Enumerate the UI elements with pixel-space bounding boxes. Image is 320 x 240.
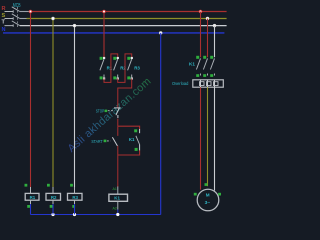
- MCB linkage dashed: [17, 7, 19, 27]
- wire main through start: [117, 126, 119, 187]
- node on R bus x104: [102, 10, 106, 14]
- wire R3 to stop: [118, 79, 132, 108]
- wire into coil: [117, 187, 119, 195]
- wire red drop to lamp R1: [30, 12, 32, 188]
- svg-text:T: T: [2, 20, 6, 26]
- svg-text:3~: 3~: [205, 200, 211, 206]
- stop button actuator: [105, 110, 114, 113]
- svg-text:N: N: [2, 27, 6, 33]
- svg-text:K1: K1: [114, 196, 120, 201]
- node on S bus x53: [51, 17, 54, 20]
- contact R3: [127, 57, 133, 80]
- svg-text:R3: R3: [72, 195, 78, 200]
- wire red drop K1 pole2: [207, 19, 209, 58]
- wire red drop K1 pole1: [200, 12, 202, 58]
- wire series link R1-R2: [104, 54, 118, 83]
- wire white overload to motor W: [214, 87, 216, 190]
- svg-text:M: M: [206, 193, 210, 198]
- svg-text:R1: R1: [107, 66, 113, 71]
- contactor K1 pole2: [203, 56, 207, 77]
- wire white drop to lamp R3: [74, 26, 76, 188]
- svg-text:S: S: [2, 13, 6, 19]
- node on T bus x74.5: [73, 24, 76, 27]
- bus N (blue neutral): [3, 32, 224, 34]
- node rail x74.5: [73, 213, 76, 216]
- bus R (red phase): [20, 11, 29, 13]
- svg-text:Overload: Overload: [172, 81, 189, 86]
- contactor K1 pole1: [196, 56, 200, 77]
- wire holding branch rectangle top/right/bottom: [118, 126, 140, 155]
- node on S bus x207.5: [206, 17, 209, 20]
- neutral riser from N bus: [160, 33, 162, 215]
- wire red overload to motor U: [200, 87, 202, 189]
- motor M: [197, 189, 219, 211]
- svg-text:START: START: [91, 139, 102, 144]
- svg-text:K1: K1: [129, 137, 135, 142]
- node on R bus x30.5: [29, 10, 33, 14]
- contact R2: [113, 57, 119, 80]
- wire coil to neutral rail: [117, 210, 119, 215]
- lamp R2: [46, 184, 61, 215]
- wire series link R2-R3: [118, 54, 132, 83]
- svg-text:K1: K1: [189, 62, 195, 67]
- lamp R1: [25, 184, 40, 215]
- MCB pole R blade: [12, 7, 20, 12]
- node on N bus x160.7: [159, 31, 162, 34]
- node rail x118: [116, 213, 119, 216]
- svg-text:R2: R2: [51, 195, 57, 200]
- svg-text:A1: A1: [113, 187, 117, 191]
- motor terminal V1: [205, 183, 208, 186]
- MCB pole R stub: [5, 10, 14, 12]
- contact K1 aux (holding): [134, 129, 139, 151]
- svg-text:R1: R1: [30, 195, 36, 200]
- start button actuator: [104, 140, 111, 143]
- MCB pole T blade: [12, 21, 20, 26]
- wire below coil: [117, 201, 119, 209]
- neutral bottom rail: [31, 214, 161, 216]
- overload relay box: [193, 80, 224, 87]
- svg-text:R3: R3: [134, 66, 140, 71]
- motor terminal W1: [218, 193, 221, 196]
- bus T (white phase): [20, 25, 227, 27]
- contact R1: [100, 57, 106, 80]
- node rail x53: [51, 213, 54, 216]
- bus S (yellow phase): [20, 18, 27, 20]
- coil K1 box: [109, 194, 128, 201]
- pushbutton STOP (NC): [114, 108, 121, 118]
- node on R bus x200.5: [199, 10, 203, 14]
- wire red drop to contact bank: [103, 12, 105, 59]
- wire white drop K1 pole3: [214, 26, 216, 58]
- contactor K1 pole3: [210, 56, 214, 77]
- pushbutton START (NO): [112, 137, 117, 146]
- motor terminal U1: [194, 193, 197, 196]
- MCB pole S blade: [12, 14, 20, 19]
- wire stop to branch: [117, 119, 119, 127]
- wire yellow drop to lamp R2: [52, 19, 54, 188]
- lamp R3: [68, 184, 83, 215]
- wire yellow overload to motor V: [207, 87, 209, 186]
- svg-text:STOP: STOP: [96, 109, 104, 114]
- MCB pole T stub: [5, 24, 14, 26]
- svg-text:A2: A2: [113, 206, 117, 210]
- node on T bus x214.5: [213, 24, 216, 27]
- MCB pole S stub: [5, 17, 14, 19]
